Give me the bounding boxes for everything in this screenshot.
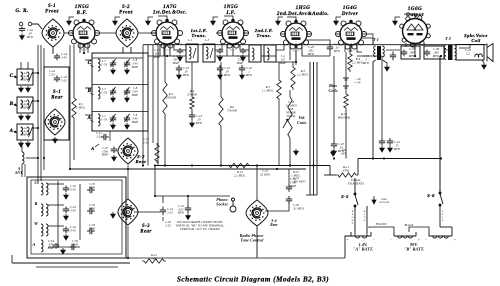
switch S-4 tone xyxy=(246,200,268,226)
wire row C stub xyxy=(85,59,92,61)
svg-text:1H5G2nd.Det.Avc&Audio.: 1H5G2nd.Det.Avc&Audio. xyxy=(276,5,329,17)
junction T-1 bus xyxy=(372,157,374,159)
box osc coils inner xyxy=(31,180,122,254)
wire s2f to V2 xyxy=(138,32,156,34)
battery B1 xyxy=(394,232,416,238)
svg-text:C-442-20: C-442-20 xyxy=(49,70,55,76)
box osc coils outer xyxy=(27,177,126,258)
ground C-2x xyxy=(241,55,246,61)
wire v110 mid xyxy=(109,131,111,141)
arrow row C xyxy=(91,65,94,67)
trimmer row C1 xyxy=(111,59,116,67)
svg-text:1N5GI.F.: 1N5GI.F. xyxy=(224,4,238,16)
svg-text:OSCILLOGRAPH CONNECTIONS:VERTI: OSCILLOGRAPH CONNECTIONS:VERTICAL "HI" T… xyxy=(176,220,225,231)
svg-text:C-16.05MFD: C-16.05MFD xyxy=(223,67,231,77)
wire blue drop xyxy=(366,206,368,233)
wire s5 to batt xyxy=(354,233,356,236)
svg-text:YELLOW: YELLOW xyxy=(376,223,388,226)
junction d7 xyxy=(440,157,442,159)
resistor R-10 xyxy=(344,92,348,110)
switch S-1 rear xyxy=(45,109,65,135)
ground C-20 xyxy=(240,73,245,79)
wire v4 left stub xyxy=(280,33,285,35)
resistor R-3 xyxy=(190,95,194,111)
svg-text:1A7G1st.Det.&Osc.: 1A7G1st.Det.&Osc. xyxy=(153,5,187,16)
coil L3b xyxy=(27,127,29,135)
capacitor C-41 xyxy=(387,138,393,146)
svg-text:C-122-20: C-122-20 xyxy=(96,132,102,138)
junction e8 xyxy=(295,44,297,46)
wire filament bus xyxy=(143,44,487,46)
wire box horiz inner xyxy=(48,246,80,248)
ground C-16 xyxy=(218,73,223,79)
wire B+ bus right xyxy=(358,158,441,160)
wire c23 top xyxy=(333,56,335,141)
wire bus38 ext xyxy=(37,177,39,184)
ground C-25 xyxy=(186,214,191,220)
wire t1 to out xyxy=(386,49,400,51)
capacitor C-25 xyxy=(185,205,191,214)
wire bias top xyxy=(345,52,347,76)
box 1st IF pri xyxy=(186,44,198,62)
wire V1 to s1f xyxy=(64,32,73,34)
wire V5 drop1 xyxy=(344,45,346,52)
wire v155 mid xyxy=(155,166,160,197)
svg-text:L-7C-7A: L-7C-7A xyxy=(101,60,107,66)
transformer T-2 secondary xyxy=(455,45,457,59)
svg-text:A: A xyxy=(90,146,94,151)
svg-text:C-1F1500MMF: C-1F1500MMF xyxy=(101,147,109,157)
trimmer row B2 xyxy=(125,87,130,95)
svg-text:C-7A.01 MFDR-8500,000TOTAL: C-7A.01 MFDR-8500,000TOTAL xyxy=(285,100,297,118)
svg-text:S-3Rear: S-3Rear xyxy=(140,224,151,234)
junction e14 xyxy=(142,164,144,166)
arrow row B xyxy=(91,93,94,95)
svg-text:R-71.2 MEG.: R-71.2 MEG. xyxy=(262,85,274,93)
svg-text:L-7C-7A: L-7C-7A xyxy=(101,115,107,121)
box voice coil xyxy=(456,45,484,61)
wire s1f drop xyxy=(52,47,54,54)
junction e13 xyxy=(127,168,129,170)
svg-text:S-2Front: S-2Front xyxy=(119,5,133,15)
svg-text:C-19.05MFD: C-19.05MFD xyxy=(195,115,203,125)
switch S-6 xyxy=(439,192,452,232)
junction d8 xyxy=(440,55,442,57)
capacitor C-31 xyxy=(286,184,292,192)
arrow A arm xyxy=(95,144,99,147)
ground speaker xyxy=(482,63,487,69)
wire bias xyxy=(345,76,347,92)
1st IF sec arrow xyxy=(210,48,213,58)
wire v221b xyxy=(220,128,222,166)
wire boxB stub xyxy=(33,100,38,102)
wire gnd d xyxy=(213,17,218,19)
wire t1 conn xyxy=(362,34,373,45)
wire vol drop xyxy=(289,140,291,166)
wire T-1 sec down xyxy=(383,60,388,65)
coil osc W xyxy=(41,224,43,236)
capacitor C-1A xyxy=(54,54,60,61)
wire v351 xyxy=(350,46,352,52)
wire C22 to V5 xyxy=(329,52,331,56)
trimmer C xyxy=(29,72,33,82)
ground C-1F xyxy=(112,155,117,161)
capacitor row B2 xyxy=(124,89,130,96)
svg-text:C-1A3-30MMF: C-1A3-30MMF xyxy=(20,100,28,110)
wire fil jog xyxy=(357,159,359,176)
wire tone down xyxy=(256,226,258,258)
wire v153 xyxy=(152,45,154,143)
ground row A1 xyxy=(111,123,116,129)
svg-text:1G4GDriver: 1G4GDriver xyxy=(341,5,359,17)
ground gnd a xyxy=(67,19,72,25)
wire V4 drop2 xyxy=(295,46,297,62)
wire rows v xyxy=(79,184,81,240)
svg-text:FUSE: FUSE xyxy=(441,210,444,222)
ground osc C1 xyxy=(64,193,69,199)
switch S-2 rear xyxy=(118,138,138,164)
divider row BA xyxy=(92,111,148,113)
wire t2 to spk xyxy=(459,45,470,48)
ground gnd c xyxy=(146,19,151,25)
wire v2 left stub xyxy=(150,32,156,34)
box ant coil B xyxy=(17,97,33,113)
svg-text:C-122-20: C-122-20 xyxy=(143,138,149,144)
svg-text:L-3: L-3 xyxy=(204,39,210,42)
ground B2 xyxy=(26,114,31,120)
svg-text:1N5GR.F.: 1N5GR.F. xyxy=(75,4,89,16)
ground row B2 xyxy=(125,96,130,102)
wire bottom bus4 xyxy=(36,266,118,268)
wire phono1 xyxy=(160,195,230,197)
capacitor osc W2 xyxy=(87,228,95,234)
svg-text:R-142.2 MEG.: R-142.2 MEG. xyxy=(234,170,246,178)
coil osc C2 xyxy=(46,183,48,195)
wire row C link xyxy=(48,183,64,185)
ground gnd e xyxy=(276,19,281,25)
junction e1 xyxy=(69,168,71,170)
wire mid h56 xyxy=(216,55,249,57)
wire h56a xyxy=(92,57,143,59)
svg-text:C-553000: C-553000 xyxy=(89,203,96,211)
wire T-1 pri down xyxy=(373,60,376,159)
coil row C xyxy=(98,59,100,71)
coil osc B xyxy=(41,204,43,216)
capacitor osc B2 xyxy=(87,208,95,214)
junction f4 xyxy=(43,157,45,159)
svg-text:BiasCells: BiasCells xyxy=(328,83,338,93)
wire B+ jog xyxy=(329,166,331,176)
junction d15 xyxy=(295,61,297,63)
wire V4 to C22 xyxy=(307,40,330,44)
svg-text:+: + xyxy=(454,238,456,242)
wire V1 drop2 xyxy=(83,44,85,53)
svg-text:R-12100Ω: R-12100Ω xyxy=(150,254,157,260)
box 2nd IF pri xyxy=(249,45,261,62)
wire V6 top xyxy=(404,14,415,18)
svg-text:+: + xyxy=(346,238,348,242)
battery A xyxy=(351,232,371,238)
wire grid caps xyxy=(158,16,167,20)
trimmer row B1 xyxy=(111,87,116,95)
junction e6 xyxy=(166,44,168,46)
transformer T-1 core xyxy=(377,46,381,60)
junction d1 xyxy=(154,164,156,166)
capacitor C-12 xyxy=(101,134,109,140)
wire V2 drop3 xyxy=(169,45,171,56)
svg-text:C-33.02 MFD: C-33.02 MFD xyxy=(260,170,271,176)
coil osc W2 xyxy=(46,224,48,236)
svg-text:R-52.2 MEG.: R-52.2 MEG. xyxy=(297,69,309,77)
wire bus to a xyxy=(345,236,351,258)
capacitor row A2 xyxy=(124,116,130,123)
box S-1 rear xyxy=(44,67,69,140)
ground to avc xyxy=(331,150,336,156)
wire spk gnd xyxy=(482,60,484,63)
svg-text:WIRECHASSIS: WIRECHASSIS xyxy=(379,198,390,204)
arrow C xyxy=(14,76,17,78)
wire V5 drop2 xyxy=(357,45,362,52)
wire gnd a xyxy=(69,17,74,19)
svg-text:C-250.05MFD: C-250.05MFD xyxy=(177,205,185,215)
capacitor C-40 xyxy=(379,138,385,146)
wire row W link xyxy=(48,225,64,227)
svg-text:Schematic Circuit Diagram (Mod: Schematic Circuit Diagram (Models B2, B3… xyxy=(177,275,329,284)
junction f3 xyxy=(37,127,39,129)
wire box1 to V3 xyxy=(215,44,222,50)
capacitor osc A2 xyxy=(70,244,77,250)
svg-text:8 2 7: 8 2 7 xyxy=(164,49,170,52)
ground osc B1 xyxy=(64,214,69,220)
wire ant into box xyxy=(21,172,23,177)
capacitor C-19 xyxy=(189,111,195,121)
wire v74b xyxy=(73,120,75,160)
svg-text:C-103-30: C-103-30 xyxy=(70,184,77,192)
wire V3 drop3 xyxy=(240,44,249,50)
junction d9 xyxy=(127,257,129,259)
svg-text:C-13SECMMF: C-13SECMMF xyxy=(172,55,180,65)
ground C-14 xyxy=(178,55,183,61)
wire s3 link xyxy=(136,211,160,213)
svg-text:3 5: 3 5 xyxy=(413,47,417,50)
wire s3r down xyxy=(127,226,129,258)
ground chassis mid xyxy=(294,149,299,155)
box output caps 2 xyxy=(424,46,444,59)
wire box vert inner xyxy=(57,181,59,248)
wire V4 drop3 xyxy=(302,45,330,56)
ground B1 xyxy=(19,114,24,120)
resistor R-12 xyxy=(142,259,166,263)
junction e11 xyxy=(333,157,335,159)
capacitor C-17 xyxy=(217,48,223,54)
resistor R-11 xyxy=(336,173,358,177)
wire c40 top xyxy=(381,56,383,138)
svg-text:R-11 MEG.: R-11 MEG. xyxy=(76,102,86,110)
svg-text:S-1Front: S-1Front xyxy=(45,4,59,14)
speaker voice coil xyxy=(475,54,482,57)
wire avc h188 xyxy=(306,194,317,196)
wire v167 left xyxy=(70,168,306,170)
coil row A xyxy=(98,114,100,126)
svg-text:−: − xyxy=(425,238,427,242)
wire avc drop2 xyxy=(313,62,315,195)
svg-text:C-20.1MFD: C-20.1MFD xyxy=(245,67,253,77)
ground gnd f xyxy=(334,19,339,25)
trimmer A xyxy=(29,127,33,137)
ground S-1 rear xyxy=(53,137,58,143)
wire gnd c xyxy=(148,17,153,19)
svg-text:BROWN: BROWN xyxy=(351,210,355,225)
wire r9 top xyxy=(349,45,351,52)
svg-text:S-4Rear: S-4Rear xyxy=(270,219,278,227)
ground s3 xyxy=(111,212,116,218)
svg-text:T-2: T-2 xyxy=(445,36,451,41)
junction e9 xyxy=(350,44,352,46)
coil row B xyxy=(98,87,100,99)
wire avc drop3 xyxy=(316,62,318,195)
wire V1 drop3 xyxy=(87,44,89,53)
wire h56b xyxy=(148,55,186,57)
switch S-3 rear xyxy=(118,199,138,225)
ground A2 xyxy=(26,141,31,147)
svg-text:C-83-30MMF: C-83-30MMF xyxy=(131,114,139,124)
ground T-1 xyxy=(385,65,390,71)
svg-text:−: − xyxy=(373,238,375,242)
ground C1 xyxy=(19,86,24,92)
resistor R-14 xyxy=(227,163,251,167)
capacitor osc W1 xyxy=(63,227,69,234)
coil L1b xyxy=(27,72,29,80)
svg-text:S-2Rear: S-2Rear xyxy=(136,154,147,164)
capacitor C-18 xyxy=(176,65,182,73)
divider row CB xyxy=(92,84,148,86)
junction d16 xyxy=(276,168,278,170)
ground gnd d xyxy=(211,19,216,25)
trimmer row A1 xyxy=(111,114,116,122)
svg-text:8 2 7: 8 2 7 xyxy=(230,49,236,52)
antenna terminal xyxy=(19,22,23,26)
junction d3 xyxy=(220,164,222,166)
wire v221 xyxy=(220,62,222,95)
box output caps 1 xyxy=(401,46,420,59)
svg-text:L-2: L-2 xyxy=(187,39,193,42)
wire fil bus xyxy=(324,174,336,176)
wire r7 top xyxy=(278,62,280,78)
capacitor osc A1 xyxy=(53,243,59,249)
junction d13 xyxy=(83,52,85,54)
svg-text:S-6: S-6 xyxy=(427,193,435,198)
wire ant bot xyxy=(21,164,23,172)
wire bottom bus1 xyxy=(126,257,345,259)
wire B+ bus xyxy=(155,165,330,167)
svg-text:C: C xyxy=(10,74,14,79)
capacitor C-2x xyxy=(240,48,246,54)
junction e7 xyxy=(232,44,234,46)
battery B2 xyxy=(429,232,452,238)
capacitor osc C1 xyxy=(63,186,69,193)
wire V6 drop2 xyxy=(423,43,425,47)
svg-text:S-1Rear: S-1Rear xyxy=(51,90,63,101)
ground A1 xyxy=(19,141,24,147)
junction d2 xyxy=(191,164,193,166)
wire V1 to s2f xyxy=(95,32,116,34)
coil L2a xyxy=(21,100,23,108)
wire ant top xyxy=(21,146,23,152)
svg-text:TO ALLFILAMENTS: TO ALLFILAMENTS xyxy=(347,178,365,186)
ground C-41 xyxy=(388,146,393,152)
bias cell symbols xyxy=(343,78,349,88)
junction d11 xyxy=(164,164,166,166)
wire avc drop1 xyxy=(309,62,311,195)
wire term to sw xyxy=(32,24,42,29)
svg-text:C-593000: C-593000 xyxy=(72,240,78,246)
svg-text:C-1A3-30MMF: C-1A3-30MMF xyxy=(20,72,28,82)
capacitor row C2 xyxy=(124,61,130,68)
wire V5 to T1 xyxy=(362,38,373,45)
svg-text:C-18.05MFD: C-18.05MFD xyxy=(182,67,190,77)
svg-text:C-83-30MMF: C-83-30MMF xyxy=(131,87,139,97)
ground under C-42 xyxy=(20,34,25,40)
tube V4 1H5G xyxy=(281,20,312,49)
transformer T-1 primary xyxy=(374,46,376,57)
wire V3 drop1 xyxy=(226,44,228,56)
ground osc W1 xyxy=(64,234,69,240)
transformer T-2 core xyxy=(448,45,453,60)
arrow A xyxy=(14,131,17,133)
wire batt conn1 xyxy=(369,227,394,232)
svg-text:C-103-30: C-103-30 xyxy=(70,225,77,233)
ground row A2 xyxy=(125,123,130,129)
capacitor osc B1 xyxy=(63,207,69,214)
wire boxC top stub2 xyxy=(27,62,29,69)
switch S-4 xyxy=(246,200,268,226)
wire grid caps3 xyxy=(287,17,296,21)
arrow B xyxy=(14,104,17,106)
capacitor row A1 xyxy=(110,116,116,123)
wire mid h56b xyxy=(261,55,276,57)
capacitor osc C2 xyxy=(87,187,95,193)
svg-text:C-553000: C-553000 xyxy=(89,223,96,231)
wire ant link xyxy=(26,157,38,159)
svg-text:+: + xyxy=(418,238,420,242)
junction d5 xyxy=(289,164,291,166)
resistor R-1 xyxy=(72,96,76,120)
box 2nd IF sec xyxy=(264,45,276,62)
ground C-23 xyxy=(332,149,337,155)
wire row B stub xyxy=(85,87,92,89)
ground row C2 xyxy=(125,68,130,74)
wire out drop xyxy=(414,45,416,56)
junction f2 xyxy=(37,100,39,102)
capacitor C-38 xyxy=(424,50,430,57)
capacitor C-22 xyxy=(327,44,333,52)
wire left col to box xyxy=(24,164,26,177)
wire t2 conn xyxy=(444,49,448,51)
wire s2r to s3r xyxy=(127,165,129,199)
wire v4 right stub xyxy=(307,33,312,35)
wire boxC stub xyxy=(33,72,38,74)
capacitor C-43 xyxy=(54,76,60,83)
wire s2f drop1 xyxy=(122,47,124,53)
svg-text:C-42.05MFD: C-42.05MFD xyxy=(26,29,34,39)
trimmer row A2 xyxy=(125,114,130,122)
svg-text:− 4V.+ 4V.: − 4V.+ 4V. xyxy=(354,77,362,85)
wire V6 drop1 xyxy=(405,43,407,47)
wire batt conn2 xyxy=(409,227,429,232)
coil osc A xyxy=(41,240,43,252)
svg-text:C-462-20: C-462-20 xyxy=(165,221,171,227)
junction e12 xyxy=(383,157,385,159)
